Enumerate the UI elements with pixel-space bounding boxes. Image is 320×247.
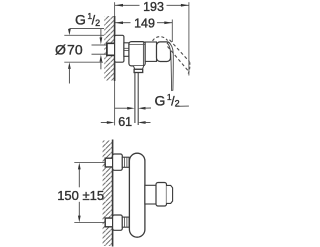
dimension 193 (115, 0, 189, 76)
wall section (side view, hatched) (104, 16, 114, 81)
svg-text:150 ±15: 150 ±15 (57, 188, 104, 203)
dimension 150 ±15 (57, 163, 105, 223)
cartridge block (front view) (156, 183, 167, 207)
mixer body main block (side view) (129, 42, 145, 66)
shower outlet taper (133, 66, 143, 69)
dimension Ø 70 (escutcheon diameter) (55, 35, 104, 83)
upper supply pipe in wall (105, 158, 112, 167)
svg-text:193: 193 (143, 0, 164, 14)
lower union nut (front view) (122, 217, 129, 227)
label G 1/2 (top, wall union thread) (68, 11, 104, 69)
mixer body (front view, stadium shape) (129, 153, 145, 237)
wall face line (front view) (112, 140, 114, 247)
lower supply pipe in wall (105, 218, 112, 227)
lever alternate position (dashed arc over cap) (153, 37, 168, 41)
svg-text:149: 149 (134, 17, 155, 31)
cartridge end cap (front view) (167, 185, 173, 203)
svg-text:61: 61 (118, 115, 132, 129)
upper union nut (front view) (122, 157, 129, 167)
lever handle (solid, hanging down) (167, 42, 173, 90)
escutcheon (side view) (115, 35, 124, 62)
dimension 149 (115, 17, 172, 42)
lever alternate position (dashed, raised) (168, 40, 190, 75)
dimension 61 (text row) (101, 115, 151, 129)
shower outlet hose nut (134, 69, 143, 72)
lower escutcheon (front view) (113, 215, 123, 230)
handle cap (side view) (157, 42, 171, 62)
upper escutcheon (front view) (113, 154, 123, 170)
body middle section (side view) (145, 42, 156, 61)
shower hose connection (two vertical lines) (135, 73, 138, 126)
dimension 61 upper row (wall to hose) (115, 107, 135, 110)
cartridge neck (front view) (145, 185, 156, 204)
wall face line / extension line (side view) (114, 2, 116, 125)
svg-text:Ø 70: Ø 70 (55, 41, 83, 57)
union nut (side view) (124, 43, 129, 57)
label G 1/2 (bottom, hose thread) leader (138, 92, 189, 110)
wall section (front view, hatched) (103, 141, 113, 247)
S-union supply pipe in wall (92, 43, 115, 55)
